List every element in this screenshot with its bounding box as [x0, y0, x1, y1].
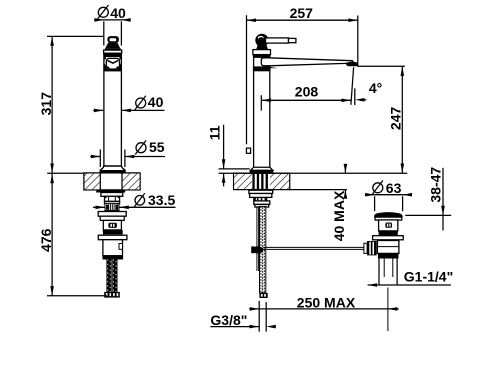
dim Ø63 line — [365, 194, 412, 196]
top knob cap (front) — [107, 36, 119, 43]
valve body (front) — [103, 240, 123, 256]
DIMENSIONS-GROUP — [38, 5, 453, 332]
threaded shank Ø33.5 (front) — [105, 203, 119, 210]
dim 40 MAX line — [344, 164, 346, 173]
braided hoses (front) — [106, 260, 111, 292]
dim Ø33.5 label — [135, 196, 145, 206]
drain black band 1 — [379, 231, 398, 236]
drain upper body — [379, 220, 398, 231]
black band (front body) — [103, 230, 123, 235]
dim 317 extension top — [47, 35, 103, 37]
svg-text:40: 40 — [110, 5, 126, 21]
dim 317/476 vertical line — [51, 36, 53, 295]
dim 257 line — [247, 19, 358, 21]
svg-text:40: 40 — [148, 94, 164, 110]
countertop (front, hatched section) — [84, 173, 140, 190]
faucet body column (side) — [253, 55, 255, 169]
black band above hoses (front) — [103, 256, 124, 260]
pop-up rod (side) — [256, 206, 258, 271]
dim Ø55 label — [136, 143, 146, 153]
faucet column (front) — [103, 50, 105, 167]
pop-up rod clip square (side) — [246, 148, 250, 153]
nut collar band (front) — [105, 201, 120, 203]
drain flange lip — [375, 217, 402, 220]
lever ball (side) — [255, 34, 268, 47]
cartridge cap (side) — [253, 50, 271, 55]
SIDE-VIEW-GROUP — [219, 34, 408, 331]
spout aerator tip (side) — [346, 62, 358, 66]
drain black band 2 — [378, 253, 399, 258]
dim 11 line — [223, 125, 225, 169]
label G1-1/4 leader — [368, 284, 451, 286]
dim Ø40 middle label — [136, 98, 146, 108]
hose end fittings G3/8 (front) — [104, 292, 120, 298]
dim 38-47 line — [442, 168, 444, 231]
drain cap black dome — [374, 212, 403, 217]
connection body (front) — [103, 220, 121, 230]
dim 247 line — [401, 67, 403, 173]
dim Ø63 label — [373, 183, 383, 193]
black band below spout (side) — [253, 66, 271, 71]
svg-text:55: 55 — [149, 139, 165, 155]
counter top surface line (side, extended) — [219, 172, 408, 174]
svg-text:40 MAX: 40 MAX — [331, 190, 347, 241]
counter bottom extension line (side) — [290, 189, 347, 191]
knob stem flare (front) — [105, 43, 120, 49]
black collar band (side) — [253, 55, 271, 58]
lever bar (side) — [266, 38, 289, 43]
drain rod clamp knurled nut — [367, 241, 377, 255]
svg-text:G3/8": G3/8" — [210, 312, 247, 328]
dim Ø33.5 line — [93, 206, 105, 208]
lever stem (side) — [256, 45, 268, 50]
braided hose (side) — [260, 206, 266, 293]
label G3/8 leader — [210, 326, 259, 328]
svg-text:250 MAX: 250 MAX — [297, 295, 356, 311]
svg-text:476: 476 — [38, 228, 54, 252]
dim Ø40 top line — [94, 19, 130, 21]
svg-text:38-47: 38-47 — [427, 167, 443, 203]
threaded shank through counter (side) — [252, 174, 254, 190]
spout base shadow wedge (side) — [265, 66, 278, 68]
spout tube (side) — [261, 58, 353, 66]
countertop (side, hatched section) — [234, 173, 290, 189]
horizontal pop-up rod to drain (side) — [263, 246, 364, 248]
hose connectors (side) — [253, 197, 256, 201]
upper black band (front) — [103, 53, 122, 57]
svg-text:11: 11 — [207, 125, 223, 140]
svg-text:63: 63 — [386, 180, 402, 196]
base plate top extension line (side) — [219, 168, 250, 170]
dim Ø55 line — [90, 156, 100, 158]
wide locknut flange (front) — [98, 212, 126, 217]
svg-text:208: 208 — [295, 84, 319, 100]
cap ring band (front) — [104, 50, 122, 53]
FRONT-VIEW-GROUP — [84, 36, 140, 298]
dim extension counter top (left) — [47, 172, 84, 174]
dim Ø40 top label — [98, 7, 108, 17]
drain tailpipe G1-1/4 — [378, 259, 380, 286]
svg-text:247: 247 — [388, 107, 404, 131]
svg-text:317: 317 — [38, 92, 54, 116]
under-counter nut (side) — [249, 190, 273, 193]
under-counter flange (front) — [101, 193, 123, 197]
drain washer flange — [373, 236, 404, 240]
dim 38-47 bottom extension — [405, 214, 451, 216]
dim 476 extension bottom — [47, 295, 107, 297]
drain centerline — [387, 288, 389, 332]
base plate 11mm (side, black) — [250, 170, 274, 173]
dim 250 MAX line — [249, 308, 399, 310]
svg-text:G1-1/4": G1-1/4" — [404, 269, 453, 285]
dim 4 degree slant line — [351, 67, 354, 105]
base flare (front) — [100, 166, 125, 173]
dim 208 line — [261, 99, 351, 101]
mounting nut (front) — [105, 196, 120, 201]
dim 257 extension left — [246, 15, 248, 144]
thin flange (front) — [98, 235, 127, 240]
counter hole edges (front) — [99, 173, 101, 190]
base flare (side) — [251, 167, 273, 170]
drain lower body — [377, 241, 399, 254]
spout outlet level extension line — [358, 65, 405, 67]
svg-text:4°: 4° — [369, 80, 382, 96]
dim 208 tick — [260, 95, 262, 110]
lower black band (front) — [103, 68, 122, 71]
under-counter black flange (front) — [96, 190, 125, 193]
hose end fitting (side) — [259, 293, 267, 298]
lever handle silhouette (front) — [104, 62, 107, 68]
rod linkage joint (side) — [252, 246, 263, 253]
dim 257 extension right — [357, 16, 359, 67]
dim Ø40 middle line — [93, 109, 103, 111]
svg-text:33.5: 33.5 — [148, 192, 175, 208]
svg-text:257: 257 — [290, 5, 314, 21]
